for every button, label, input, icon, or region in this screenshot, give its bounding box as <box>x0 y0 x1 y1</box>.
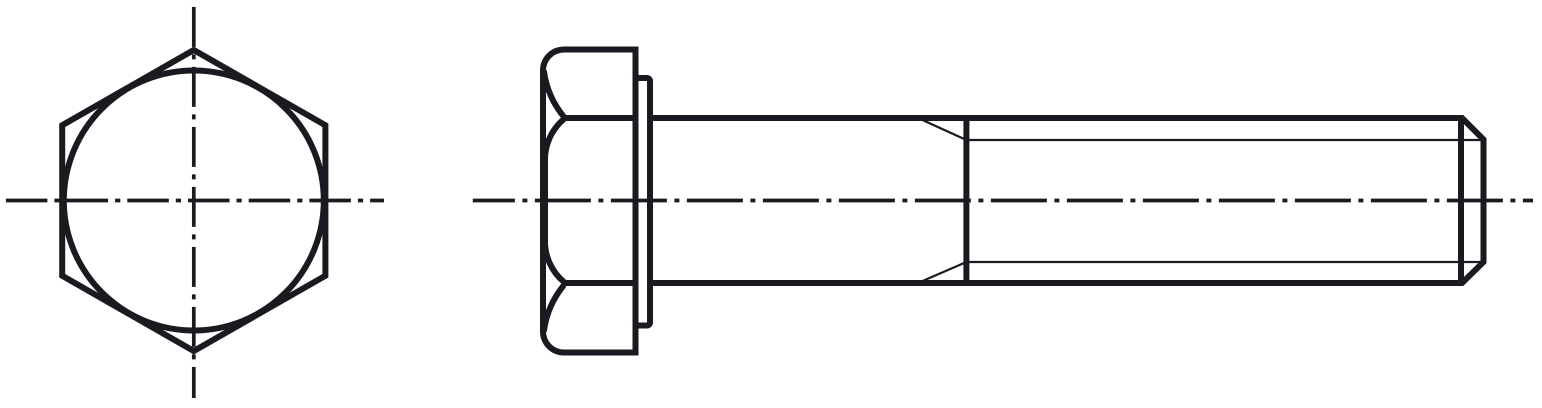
thread runout diagonal bottom <box>918 262 966 283</box>
full-thread start line <box>963 118 969 283</box>
thread runout diagonal top <box>918 118 966 140</box>
thread minor diameter bottom <box>966 261 1483 263</box>
washer face under head <box>636 78 651 326</box>
shank and tip outline <box>650 118 1484 283</box>
chamfer edge line at tip <box>1458 118 1464 283</box>
bolt head outline (side view) <box>543 50 636 353</box>
thread minor diameter top <box>966 139 1483 141</box>
centerline vertical (end view) <box>192 7 196 398</box>
head chamfer arc middle face <box>545 119 564 282</box>
chamfer circle (end view) <box>64 71 324 331</box>
head face line top <box>562 115 636 121</box>
centerline horizontal (end view) <box>6 199 384 203</box>
head chamfer arc top face <box>544 71 564 118</box>
centerline horizontal (side view / bolt axis) <box>473 199 1533 203</box>
head face line bottom <box>562 280 636 286</box>
head chamfer arc bottom face <box>544 285 564 332</box>
hex head outline (end view) <box>62 50 325 351</box>
